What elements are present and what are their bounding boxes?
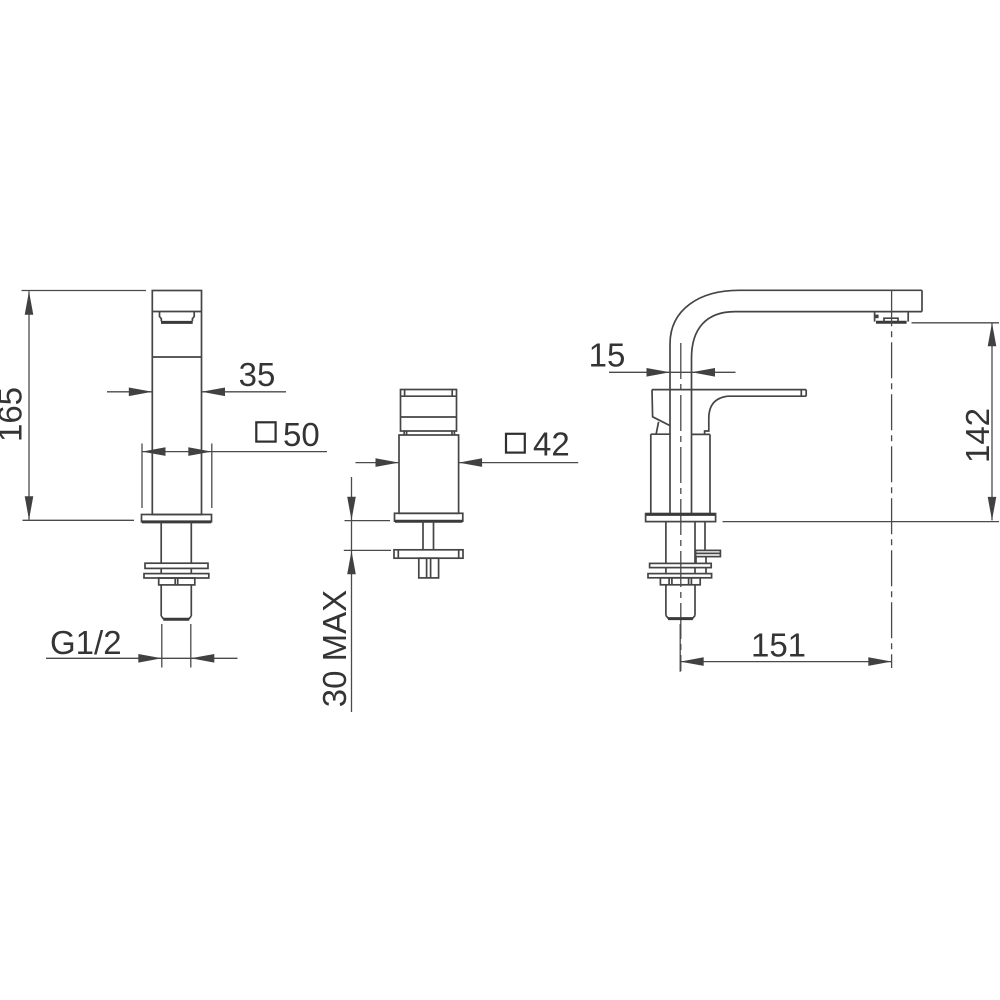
right view: riser centerline (680, 343, 682, 671)
svg-text:30 MAX: 30 MAX (316, 590, 353, 707)
dimension square-42 (356, 425, 579, 467)
right view: shank upper (666, 522, 705, 564)
right view: spout underside (735, 311, 922, 313)
right view: washer 2 (648, 574, 712, 578)
dimension 15 (589, 337, 736, 377)
right view: lock nut (660, 578, 700, 585)
right view: washer 1 (650, 563, 712, 567)
right view: aerator (875, 312, 909, 323)
left view: washer 1 (145, 563, 208, 568)
dimension 35 (107, 356, 286, 396)
left view: shank upper (161, 522, 191, 563)
middle view: washer disc (394, 550, 463, 558)
dimension square-50 (142, 416, 327, 508)
left view: spout aerator recess (160, 312, 195, 322)
dimension 165 (0, 291, 146, 521)
svg-text:142: 142 (959, 408, 996, 463)
dimension G1/2 (46, 624, 238, 668)
left view: tap body outline (152, 291, 201, 515)
middle view: body (399, 435, 459, 513)
middle view: stem (423, 521, 434, 550)
right view: base flange (646, 514, 716, 522)
svg-text:35: 35 (239, 356, 276, 393)
right view: spout end edge (921, 290, 923, 311)
left view: lock nut (159, 578, 195, 585)
svg-text:G1/2: G1/2 (50, 624, 122, 661)
svg-text:42: 42 (533, 425, 570, 462)
right view: fixing plate (696, 550, 721, 563)
svg-text:165: 165 (0, 387, 29, 442)
right view: shank between washers (666, 568, 706, 574)
svg-text:50: 50 (283, 416, 320, 453)
right view: spout inner curve (692, 312, 736, 358)
dimension 151 (680, 624, 892, 672)
dimension 142 (912, 323, 1000, 521)
svg-text:151: 151 (751, 626, 806, 663)
right view: threaded tail (666, 585, 695, 619)
right view: riser tube edges (670, 344, 692, 514)
left view: threaded tail G1/2 (161, 585, 191, 619)
svg-text:15: 15 (589, 337, 626, 374)
middle view: handle cap (401, 390, 457, 435)
dimension 30 MAX (316, 477, 391, 712)
right view: spout axis centerline (891, 290, 893, 668)
left view: base flange (142, 515, 212, 522)
right view: deck reference line (723, 521, 1000, 523)
right view: lever handle (652, 390, 806, 435)
middle view: base flange (395, 513, 463, 521)
right view: spout outer curve (670, 290, 739, 344)
left view: washer 2 (144, 574, 209, 578)
right view: spout horizontal top (739, 289, 922, 291)
middle view: nut (419, 558, 439, 578)
right view: body block (651, 434, 710, 513)
left view: shank between washers (161, 568, 191, 573)
